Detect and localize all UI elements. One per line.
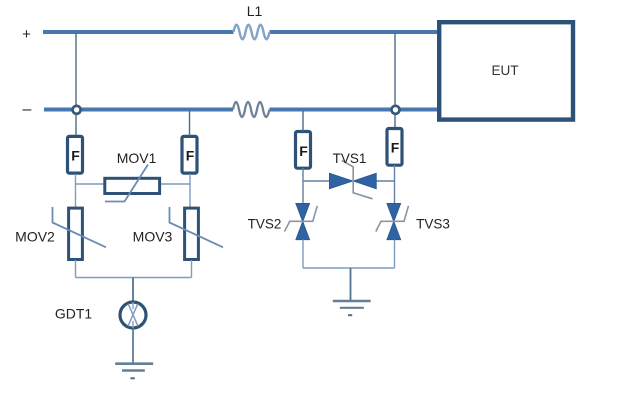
fuse F1	[68, 136, 83, 173]
wire minus bus right segment	[270, 108, 440, 112]
wire fuse F2 bottom down to MOV3	[189, 174, 191, 208]
svg-text:F: F	[71, 148, 80, 164]
node crossover circle on minus bus right	[392, 106, 400, 114]
wire vertical feed from plus bus to fuse F4	[394, 33, 396, 128]
svg-text:TVS1: TVS1	[333, 151, 367, 166]
wire vertical feed from plus bus to fuse F1	[75, 33, 77, 135]
svg-text:L1: L1	[247, 3, 263, 19]
fuse F2	[182, 136, 197, 173]
wire GDT1 to ground	[132, 329, 134, 364]
svg-text:TVS2: TVS2	[248, 217, 282, 232]
wire fuse F1 bottom down to MOV2	[75, 174, 77, 208]
varistor MOV3	[170, 207, 224, 260]
svg-text:TVS3: TVS3	[416, 217, 450, 232]
svg-text:MOV2: MOV2	[15, 229, 55, 245]
TVS diode TVS1	[330, 161, 377, 199]
ground right group	[333, 301, 371, 315]
wire plus bus left segment	[43, 30, 234, 34]
inductor minus-line coil	[233, 102, 270, 117]
wire fuse F4 bottom down through TVS1 junction to TVS3	[394, 165, 396, 204]
fuse F4	[387, 129, 402, 166]
wire MOV3 bottom lead	[191, 260, 193, 278]
svg-text:MOV3: MOV3	[133, 229, 173, 245]
EUT box U1	[439, 22, 573, 119]
gas discharge tube GDT1	[120, 302, 146, 328]
varistor MOV1	[105, 165, 160, 202]
wire TVS1 left lead	[303, 180, 330, 182]
wire MOV2 bottom lead	[75, 260, 77, 278]
wire MOV1 right lead	[161, 183, 190, 185]
wire TVS3 bottom lead	[394, 240, 396, 268]
wire junction to right ground	[350, 268, 352, 301]
wire junction to GDT1	[132, 278, 134, 302]
wire fuse F3 bottom down through TVS1 junction to TVS2	[302, 168, 304, 204]
svg-text:+: +	[22, 26, 31, 43]
wire TVS1 right lead	[376, 180, 395, 182]
wire fuse F3 top to minus bus	[302, 111, 304, 132]
wire MOV1 left lead	[76, 183, 105, 185]
wire TVS2 bottom lead	[302, 240, 304, 268]
inductor L1 coil	[234, 25, 270, 40]
svg-text:GDT1: GDT1	[55, 306, 93, 322]
wire plus bus right segment	[270, 30, 440, 34]
wire bottom junction horizontal right group	[303, 267, 395, 269]
svg-text:EUT: EUT	[492, 63, 519, 78]
svg-text:F: F	[299, 143, 308, 159]
node crossover circle on minus bus left	[73, 106, 81, 114]
ground left group	[115, 364, 153, 379]
varistor MOV2	[53, 207, 107, 260]
svg-text:F: F	[391, 140, 400, 156]
svg-text:F: F	[186, 148, 195, 164]
wire minus bus left segment	[44, 108, 233, 112]
svg-text:–: –	[23, 101, 32, 118]
svg-text:MOV1: MOV1	[117, 150, 157, 166]
wire fuse F2 top to minus bus	[189, 111, 191, 136]
fuse F3	[296, 132, 311, 169]
wire bottom junction horizontal left group	[76, 277, 192, 279]
TVS diode TVS2	[285, 204, 318, 240]
TVS diode TVS3	[376, 204, 409, 240]
